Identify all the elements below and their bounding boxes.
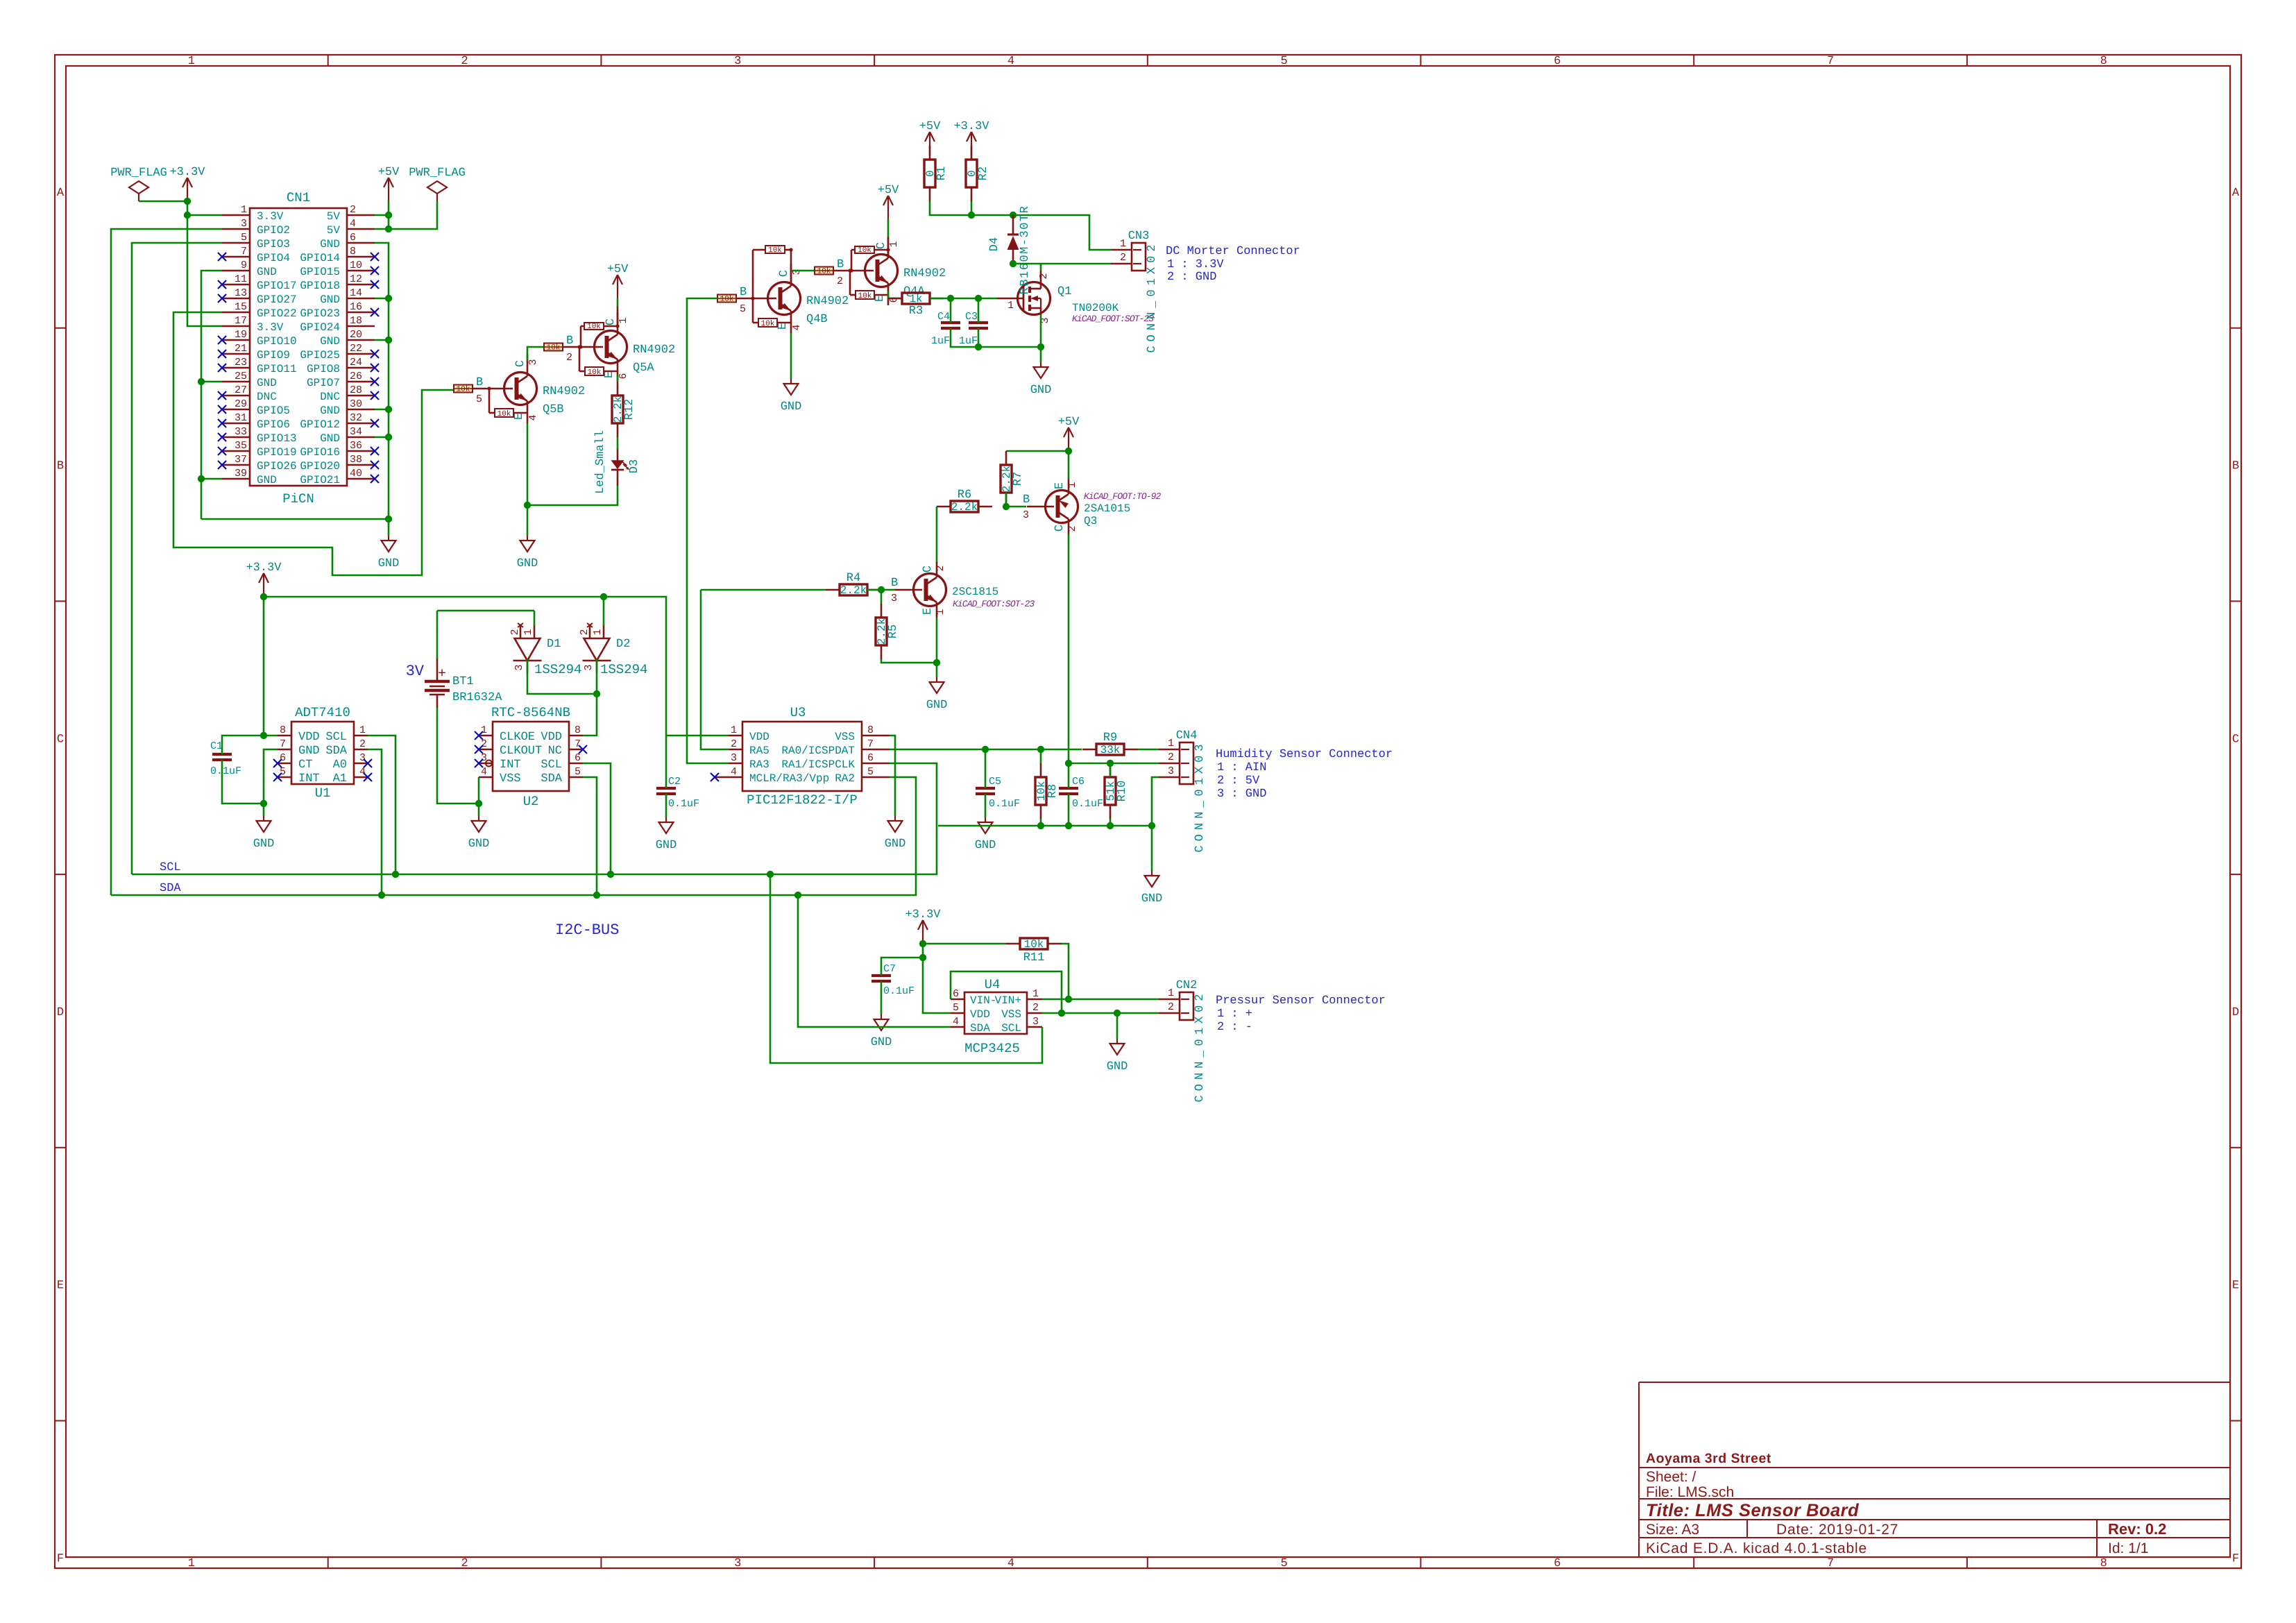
svg-text:6: 6 xyxy=(350,232,356,244)
CN1 pin 22 GPIO25 xyxy=(347,353,375,355)
junction SCL U1 xyxy=(392,871,399,878)
wire C5 bottom to ground xyxy=(985,794,987,817)
wire R3 to Q1 gate xyxy=(930,298,997,300)
wire +5V to Q5A collector xyxy=(617,298,619,307)
svg-text:36: 36 xyxy=(350,440,362,452)
svg-text:7: 7 xyxy=(1827,1557,1834,1570)
capacitor C1 0.1uF xyxy=(212,753,232,756)
svg-text:3: 3 xyxy=(241,218,247,230)
svg-text:+3.3V: +3.3V xyxy=(169,166,205,179)
svg-text:7: 7 xyxy=(241,246,247,257)
U1 pin 5 INT xyxy=(278,776,291,779)
svg-text:C6: C6 xyxy=(1072,776,1085,788)
svg-text:GPIO5: GPIO5 xyxy=(257,405,290,417)
wire +3.3V to R11 xyxy=(923,943,1006,945)
svg-text:39: 39 xyxy=(235,468,247,479)
svg-text:26: 26 xyxy=(350,371,362,382)
ground symbol below Q1 xyxy=(1040,362,1041,367)
svg-text:37: 37 xyxy=(235,454,247,466)
svg-text:A1: A1 xyxy=(333,772,347,785)
svg-text:10: 10 xyxy=(350,260,362,271)
svg-text:4: 4 xyxy=(359,766,366,778)
svg-text:B: B xyxy=(57,460,64,473)
svg-text:C: C xyxy=(778,270,791,277)
svg-text:GPIO12: GPIO12 xyxy=(300,418,340,431)
svg-text:CT: CT xyxy=(298,758,312,772)
svg-text:GPIO26: GPIO26 xyxy=(257,460,297,473)
CN1 pin 33 GPIO13 xyxy=(222,436,250,439)
svg-text:GPIO25: GPIO25 xyxy=(300,349,340,362)
junction +3.3V R11 xyxy=(919,940,926,947)
U1 pin 3 A0 xyxy=(354,763,368,765)
capacitor C2 0.1uF xyxy=(656,787,676,790)
wire Q1 drain up to motor node xyxy=(1040,264,1042,271)
transistor Q5A RN4902 xyxy=(544,343,563,351)
svg-text:2.2k: 2.2k xyxy=(840,584,867,597)
svg-text:RA1/ICSPCLK: RA1/ICSPCLK xyxy=(781,758,855,771)
svg-text:9: 9 xyxy=(241,260,247,271)
wire Q3 emitter to +5V node xyxy=(1068,451,1070,479)
svg-text:GPIO6: GPIO6 xyxy=(257,418,290,431)
junction +3.3V rail at arrow xyxy=(260,593,267,600)
svg-text:GPIO22: GPIO22 xyxy=(257,307,297,320)
junction gnd rail R8 xyxy=(1037,822,1044,829)
wire GPIO2 to SDA bus xyxy=(111,229,222,895)
wire D4 to CN3 pin 2 xyxy=(1013,263,1111,265)
svg-text:B: B xyxy=(476,376,483,389)
wire R4 to Q2 base xyxy=(867,589,895,591)
svg-text:1 : 3.3V: 1 : 3.3V xyxy=(1167,258,1224,271)
svg-text:18: 18 xyxy=(350,315,362,327)
wire Q4B collector to Q4A input xyxy=(791,270,814,272)
svg-text:GND: GND xyxy=(656,839,677,852)
wire R10 bottom xyxy=(1109,819,1112,826)
wire U2 SCL to bus xyxy=(583,763,611,874)
svg-text:RB160M-30TR: RB160M-30TR xyxy=(1019,205,1032,295)
junction Q2 emitter/GND xyxy=(933,659,940,666)
svg-text:27: 27 xyxy=(235,384,247,396)
svg-text:21: 21 xyxy=(235,343,247,355)
svg-text:2: 2 xyxy=(481,738,487,750)
wire Q4A emitter to R3 xyxy=(888,291,902,298)
svg-text:A: A xyxy=(57,187,65,200)
svg-text:SCL: SCL xyxy=(325,731,347,744)
svg-text:GPIO11: GPIO11 xyxy=(257,363,297,375)
svg-text:GPIO2: GPIO2 xyxy=(257,224,290,237)
svg-text:15: 15 xyxy=(235,301,247,313)
svg-text:3: 3 xyxy=(734,1557,741,1570)
svg-text:GND: GND xyxy=(871,1036,892,1049)
svg-text:5: 5 xyxy=(241,232,247,244)
CN1 pin 13 GPIO27 xyxy=(222,298,250,300)
svg-text:E: E xyxy=(513,413,526,420)
svg-text:C: C xyxy=(514,360,527,367)
svg-text:E: E xyxy=(874,295,887,302)
svg-text:CLKOUT: CLKOUT xyxy=(500,745,542,758)
wire R7 bottom to base node xyxy=(1005,493,1007,507)
svg-text:R5: R5 xyxy=(887,624,900,638)
svg-text:8: 8 xyxy=(2100,1557,2107,1570)
svg-text:PWR_FLAG: PWR_FLAG xyxy=(409,167,466,180)
svg-text:2: 2 xyxy=(1032,1002,1039,1014)
svg-text:ADT7410: ADT7410 xyxy=(295,705,350,720)
svg-text:2: 2 xyxy=(837,275,843,287)
CN1 pin 19 GPIO10 xyxy=(222,339,250,341)
svg-text:1 : +: 1 : + xyxy=(1217,1008,1252,1021)
connector CN2 CONN_01X02 xyxy=(1180,992,1193,1020)
wire SCL bus xyxy=(132,763,937,874)
svg-text:4: 4 xyxy=(1007,1557,1014,1570)
transistor Q3 2SA1015 xyxy=(1046,491,1078,523)
svg-text:B: B xyxy=(2232,460,2239,473)
ground symbol below U3 VSS xyxy=(894,816,896,821)
IC U2 RTC-8564NB xyxy=(493,722,569,791)
junction +3.3V C7 xyxy=(919,954,926,961)
svg-text:10k: 10k xyxy=(547,344,561,352)
svg-text:GPIO23: GPIO23 xyxy=(300,307,340,320)
svg-text:C4: C4 xyxy=(937,311,950,323)
CN1 pin 36 GPIO16 xyxy=(347,450,375,452)
svg-text:35: 35 xyxy=(235,440,247,452)
svg-text:R10: R10 xyxy=(1116,781,1129,802)
svg-text:33: 33 xyxy=(235,426,247,438)
svg-text:6: 6 xyxy=(618,373,629,379)
CN1 pin 7 GPIO4 xyxy=(222,256,250,258)
svg-text:GPIO15: GPIO15 xyxy=(300,266,340,278)
power flag PWR_FLAG (right) xyxy=(427,181,447,194)
U4 pin 4 SDA xyxy=(951,1026,964,1028)
junction R4/R5/base xyxy=(878,586,885,593)
svg-text:0.1uF: 0.1uF xyxy=(210,765,241,777)
wire GPIO22 to Q5B input xyxy=(173,312,455,575)
svg-text:4: 4 xyxy=(481,766,487,778)
svg-text:D2: D2 xyxy=(616,638,630,651)
junction GND pin20 xyxy=(385,337,392,343)
junction source rail Q1 xyxy=(1037,343,1044,350)
wire PWR_FLAG to +3.3V node xyxy=(139,201,187,203)
CN1 pin 40 GPIO21 xyxy=(347,478,375,480)
svg-text:F: F xyxy=(2232,1552,2239,1565)
svg-text:GPIO10: GPIO10 xyxy=(257,335,297,348)
svg-text:3.3V: 3.3V xyxy=(257,321,284,334)
svg-text:16: 16 xyxy=(350,301,362,313)
svg-text:R6: R6 xyxy=(958,488,971,502)
U2 pin 4 VSS xyxy=(479,776,493,779)
svg-text:2: 2 xyxy=(1066,525,1078,532)
junction source rail C3 xyxy=(975,343,982,350)
U1 pin 2 SDA xyxy=(354,749,368,751)
svg-text:R9: R9 xyxy=(1103,731,1117,745)
junction pin1 3.3V xyxy=(184,212,191,219)
wire Q1 source to rail and ground xyxy=(1040,315,1042,362)
svg-text:D3: D3 xyxy=(628,459,641,473)
CN1 pin 16 GPIO23 xyxy=(347,312,375,314)
wire R11 to VIN+ node xyxy=(1062,944,1069,999)
svg-text:Led_Small: Led_Small xyxy=(594,430,607,494)
svg-text:PWR_FLAG: PWR_FLAG xyxy=(110,167,167,180)
U1 pin 1 SCL xyxy=(354,735,368,737)
svg-text:38: 38 xyxy=(350,454,362,466)
CN1 pin 39 GND xyxy=(222,478,250,480)
svg-text:10k: 10k xyxy=(761,320,775,328)
power symbol +5V at R1 xyxy=(929,132,930,155)
CN1 pin 35 GPIO19 xyxy=(222,450,250,452)
wire U1 SCL to bus xyxy=(368,736,396,874)
ground symbol below Q5B xyxy=(527,505,529,536)
svg-text:I2C-BUS: I2C-BUS xyxy=(555,921,619,939)
svg-text:22: 22 xyxy=(350,343,362,355)
wire +3.3V rail xyxy=(264,596,604,598)
resistor R2 0 xyxy=(971,146,973,160)
wire U3 VSS to ground xyxy=(890,736,895,816)
svg-text:+3.3V: +3.3V xyxy=(953,120,989,133)
svg-text:1: 1 xyxy=(1007,300,1014,312)
junction D1/D2 VDD node xyxy=(593,690,600,697)
svg-text:2 : 5V: 2 : 5V xyxy=(1217,774,1260,788)
svg-text:5: 5 xyxy=(740,303,746,315)
svg-text:6: 6 xyxy=(1554,55,1561,68)
connector CN4 CONN_01X03 xyxy=(1180,742,1193,784)
wire Q3 collector down to humidity 5V line xyxy=(1068,534,1070,763)
svg-text:24: 24 xyxy=(350,357,362,368)
svg-text:CLKOE: CLKOE xyxy=(500,731,535,744)
svg-text:28: 28 xyxy=(350,384,362,396)
svg-text:2: 2 xyxy=(1168,751,1174,763)
CN1 pin 11 GPIO17 xyxy=(222,284,250,286)
svg-text:D1: D1 xyxy=(547,638,561,651)
svg-text:0.1uF: 0.1uF xyxy=(668,798,699,810)
svg-text:Size: A3: Size: A3 xyxy=(1646,1522,1699,1538)
svg-text:5: 5 xyxy=(1281,1557,1288,1570)
svg-text:GND: GND xyxy=(257,266,277,278)
svg-text:BR1632A: BR1632A xyxy=(452,691,502,704)
svg-text:GPIO14: GPIO14 xyxy=(300,252,340,264)
svg-text:KiCAD_FOOT:SOT-23: KiCAD_FOOT:SOT-23 xyxy=(1072,314,1154,324)
svg-text:GND: GND xyxy=(257,377,277,389)
svg-text:17: 17 xyxy=(235,315,247,327)
wire D2 pin1 to rail xyxy=(603,597,605,626)
svg-text:6: 6 xyxy=(1554,1557,1561,1570)
svg-text:5V: 5V xyxy=(327,224,341,237)
svg-text:31: 31 xyxy=(235,412,247,424)
CN1 pin 10 GPIO15 xyxy=(347,270,375,272)
svg-text:8: 8 xyxy=(867,724,874,736)
power symbol +3.3V at U4 xyxy=(922,920,924,944)
wire C6 top xyxy=(1068,763,1070,788)
svg-text:1: 1 xyxy=(188,55,195,68)
svg-text:GPIO21: GPIO21 xyxy=(300,474,340,486)
wire Q4B emitter to ground xyxy=(790,333,792,379)
capacitor C3 1uF xyxy=(969,321,988,324)
svg-text:TN0200K: TN0200K xyxy=(1072,302,1119,314)
wire +5V to Q4A collector xyxy=(887,219,890,237)
svg-text:C: C xyxy=(1053,525,1066,532)
U3 pin 3 RA3 xyxy=(729,763,742,765)
svg-text:1: 1 xyxy=(522,629,534,635)
CN1 pin 28 DNC xyxy=(347,395,375,397)
junction C5 xyxy=(982,746,989,753)
svg-text:GPIO7: GPIO7 xyxy=(307,377,340,389)
U3 pin 5 RA2 xyxy=(862,776,890,779)
svg-text:U2: U2 xyxy=(523,794,539,809)
wire battery plus to D1 xyxy=(436,611,439,659)
svg-text:VSS: VSS xyxy=(835,731,855,743)
svg-text:B: B xyxy=(566,334,573,348)
junction VIN+ R11 xyxy=(1065,996,1072,1003)
U1 pin 8 VDD xyxy=(278,735,291,737)
capacitor C4 1uF xyxy=(941,321,960,324)
svg-text:3: 3 xyxy=(734,55,741,68)
wire U3 RA0 line to R9 xyxy=(890,749,1082,751)
U3 pin 6 RA1/ICSPCLK xyxy=(862,763,890,765)
power symbol +3.3V main rail xyxy=(263,573,264,597)
wire C7 top to +3.3V xyxy=(881,958,923,976)
svg-text:1SS294: 1SS294 xyxy=(534,662,581,677)
connector CN3 CONN_01X02 xyxy=(1132,243,1146,271)
svg-text:R2: R2 xyxy=(977,167,990,180)
svg-text:0.1uF: 0.1uF xyxy=(1072,798,1103,810)
svg-text:+: + xyxy=(438,666,446,682)
svg-text:KiCAD_FOOT:SOT-23: KiCAD_FOOT:SOT-23 xyxy=(953,599,1035,609)
wire CN1 pin20 GND xyxy=(375,339,389,341)
svg-text:GPIO27: GPIO27 xyxy=(257,294,297,306)
CN1 pin 2 5V xyxy=(347,214,375,216)
svg-text:10k: 10k xyxy=(768,246,782,255)
wire C4/C3 bottoms to source rail xyxy=(951,328,1041,347)
svg-text:Date: 2019-01-27: Date: 2019-01-27 xyxy=(1776,1522,1898,1538)
wire C1 bottom to GND node xyxy=(222,760,264,804)
svg-text:VSS: VSS xyxy=(1001,1008,1021,1021)
svg-text:7: 7 xyxy=(280,738,286,750)
svg-text:25: 25 xyxy=(235,371,247,382)
wire C7 bottom to ground xyxy=(881,981,883,1014)
CN1 pin 20 GND xyxy=(347,339,375,341)
junction Q3 collector / C6 xyxy=(1065,760,1072,767)
svg-text:5: 5 xyxy=(1281,55,1288,68)
svg-text:E: E xyxy=(2232,1280,2239,1293)
svg-text:Q3: Q3 xyxy=(1084,515,1097,527)
svg-text:VDD: VDD xyxy=(298,731,320,744)
svg-text:RN4902: RN4902 xyxy=(543,385,585,398)
power symbol +5V at Q3 xyxy=(1068,427,1069,451)
svg-text:KiCAD_FOOT:TO-92: KiCAD_FOOT:TO-92 xyxy=(1084,491,1162,502)
U3 pin 2 RA5 xyxy=(729,749,742,751)
ground symbol humidity xyxy=(1151,826,1153,871)
svg-text:34: 34 xyxy=(350,426,362,438)
svg-text:VDD: VDD xyxy=(541,731,562,744)
svg-text:14: 14 xyxy=(350,287,362,299)
power symbol +3.3V at CN1 xyxy=(187,178,188,201)
resistor R8 10k xyxy=(1040,763,1042,777)
svg-text:SDA: SDA xyxy=(325,745,347,758)
junction U2 VSS/battery xyxy=(475,800,482,807)
wire VDD node to U2 pin8 xyxy=(583,694,597,736)
junction rail R2 xyxy=(968,212,975,219)
svg-text:Id: 1/1: Id: 1/1 xyxy=(2108,1540,2148,1556)
svg-text:GPIO20: GPIO20 xyxy=(300,460,340,473)
svg-text:GND: GND xyxy=(1141,892,1163,906)
svg-text:R8: R8 xyxy=(1046,784,1060,798)
svg-text:Aoyama 3rd Street: Aoyama 3rd Street xyxy=(1646,1451,1771,1466)
svg-text:1 : AIN: 1 : AIN xyxy=(1217,761,1266,774)
title block xyxy=(1639,1382,2230,1383)
svg-text:Title: LMS Sensor Board: Title: LMS Sensor Board xyxy=(1646,1501,1860,1520)
svg-text:GND: GND xyxy=(1107,1060,1128,1073)
svg-text:0.1uF: 0.1uF xyxy=(883,985,915,997)
junction VSS GND drop xyxy=(1114,1010,1121,1017)
svg-text:GPIO4: GPIO4 xyxy=(257,252,290,264)
ground symbol below U2 xyxy=(478,804,480,816)
svg-text:1: 1 xyxy=(1066,482,1078,488)
power symbol +5V at CN1 xyxy=(388,178,389,201)
U2 pin 2 CLKOUT xyxy=(479,749,493,751)
svg-text:C5: C5 xyxy=(989,776,1001,788)
svg-text:0.1uF: 0.1uF xyxy=(989,798,1020,810)
wire U4 VIN- loop to VSS xyxy=(951,971,1062,1013)
svg-text:GND: GND xyxy=(1030,384,1052,397)
CN1 pin 32 GPIO12 xyxy=(347,423,375,425)
junction gnd rail C6 xyxy=(1065,822,1072,829)
svg-text:+5V: +5V xyxy=(378,166,400,179)
CN1 pin 8 GPIO14 xyxy=(347,256,375,258)
junction GND pin14 xyxy=(385,295,392,302)
CN1 pin 37 GPIO26 xyxy=(222,464,250,466)
junction SDA U2 xyxy=(593,892,600,899)
junction SCL U4 branch xyxy=(767,871,774,878)
wire C2 top xyxy=(665,736,667,788)
svg-text:10k: 10k xyxy=(1024,938,1044,951)
svg-text:GPIO3: GPIO3 xyxy=(257,238,290,250)
svg-text:GPIO16: GPIO16 xyxy=(300,446,340,459)
svg-text:10k: 10k xyxy=(588,368,602,377)
U2 pin 3 INT xyxy=(479,763,493,765)
wire CN1 pin34 GND xyxy=(375,436,389,439)
svg-text:10k: 10k xyxy=(858,292,872,300)
IC U3 PIC12F1822-I/P xyxy=(742,722,862,791)
wire CN1 pin14 GND xyxy=(375,298,389,300)
svg-text:10k: 10k xyxy=(720,296,734,304)
CN1 pin 18 GPIO24 xyxy=(347,325,375,328)
wire U4 VIN+ to CN2 pin1 xyxy=(1042,999,1159,1001)
CN1 pin 5 GPIO3 xyxy=(222,242,250,244)
svg-text:RA2: RA2 xyxy=(835,772,855,785)
svg-text:PiCN: PiCN xyxy=(282,491,314,507)
wire R9 to CN4 pin1 xyxy=(1138,749,1159,751)
svg-text:3: 3 xyxy=(583,664,595,670)
diode D4 RB160M-30TR xyxy=(1012,215,1014,235)
wire RA5 to R4 xyxy=(701,589,826,591)
battery BT1 BR1632A 3V xyxy=(436,658,439,681)
svg-text:3.3V: 3.3V xyxy=(257,210,284,223)
wire CN1 left GND pins 9,25,39 xyxy=(201,271,222,519)
wire C6 bottom xyxy=(1068,794,1070,826)
wire R6 to Q2 collector xyxy=(936,507,938,563)
svg-text:C: C xyxy=(921,566,935,572)
svg-text:VDD: VDD xyxy=(749,731,769,743)
svg-text:Q4B: Q4B xyxy=(806,313,828,326)
svg-text:A: A xyxy=(2232,187,2240,200)
svg-text:5: 5 xyxy=(575,766,581,778)
svg-text:RA0/ICSPDAT: RA0/ICSPDAT xyxy=(781,745,855,757)
svg-text:4: 4 xyxy=(1007,55,1014,68)
power symbol +3.3V at R2 xyxy=(971,132,972,155)
U2 pin 7 NC xyxy=(569,749,583,751)
wire battery minus to VSS node xyxy=(437,708,479,804)
wire U2 SDA to bus xyxy=(583,777,597,895)
svg-text:CN1: CN1 xyxy=(287,190,310,205)
junction rail D4 xyxy=(1010,212,1017,219)
svg-text:B: B xyxy=(891,577,898,590)
